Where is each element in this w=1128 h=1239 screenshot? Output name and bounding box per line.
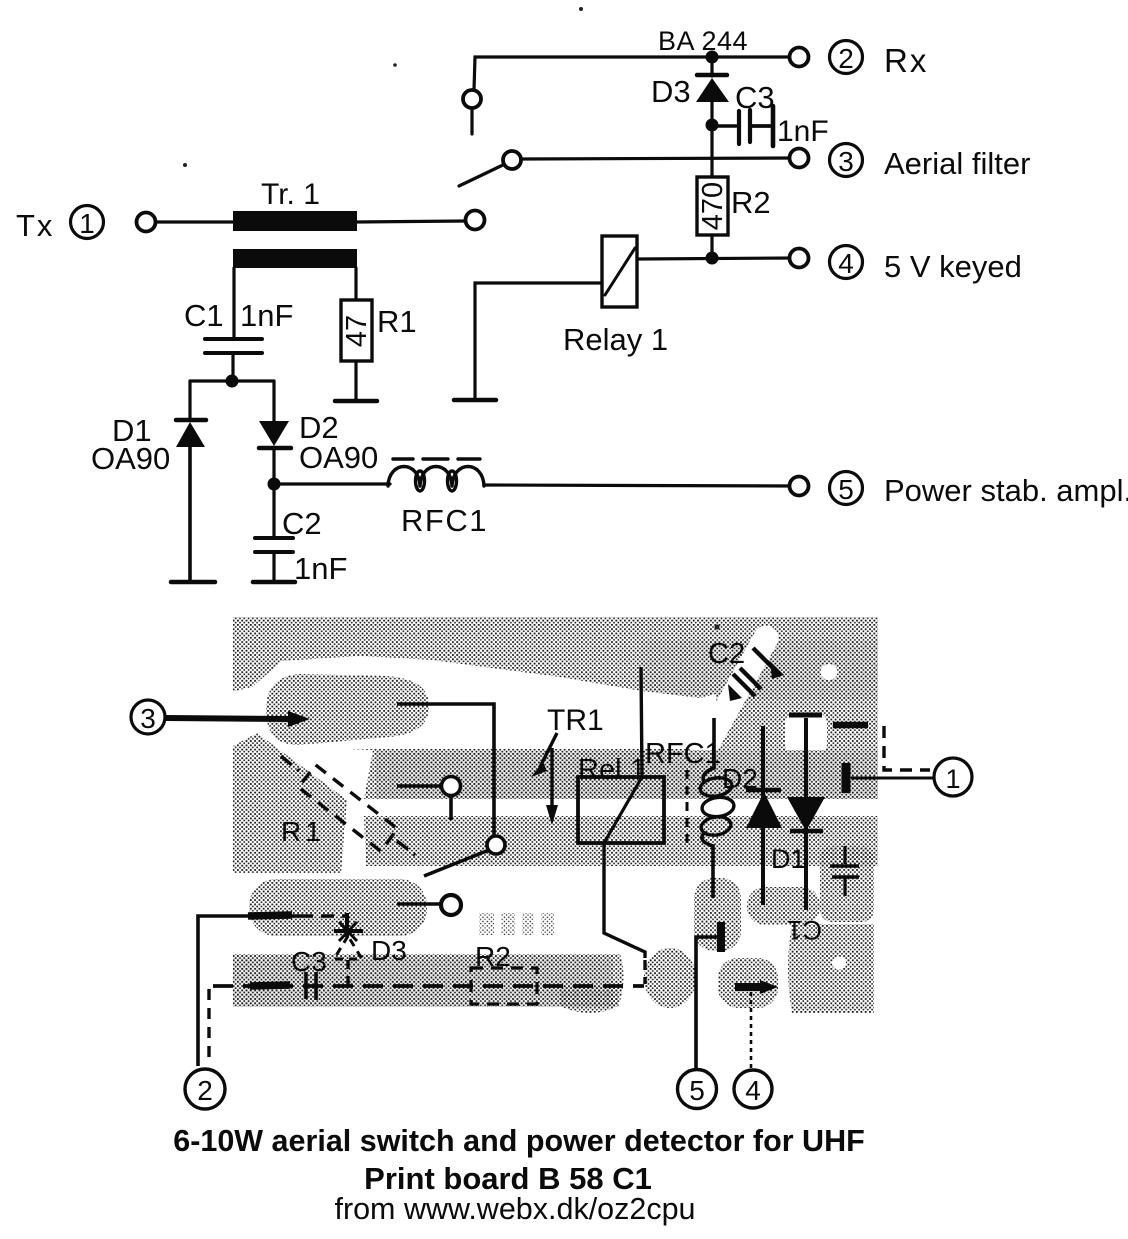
- scan speck top: [579, 7, 583, 11]
- diode D3 dashed triangle pcb: [334, 936, 362, 959]
- terminal 4 pad: [790, 249, 809, 268]
- pcb etched white hole bottom right: [832, 957, 846, 970]
- terminal 4 circle pcb: [734, 1070, 772, 1108]
- pcb etched white pocket at D1 pad: [785, 713, 827, 754]
- svg-text:C1: C1: [184, 298, 224, 333]
- svg-text:Rel.1: Rel.1: [578, 754, 646, 786]
- pcb etched white hole top right: [821, 664, 838, 680]
- switch aerial throw contact: [503, 151, 521, 169]
- capacitor C1 pcb: [830, 846, 859, 896]
- svg-text:Tr. 1: Tr. 1: [261, 178, 320, 211]
- switch upper throw contact: [463, 90, 481, 108]
- svg-text:47: 47: [341, 315, 373, 347]
- wire Tr.1 to switch pole: [357, 221, 466, 222]
- pcb copper middle band: [364, 750, 878, 799]
- fat lead upper pcb: [248, 915, 292, 916]
- relay Rel.1 body pcb: [578, 777, 664, 843]
- svg-text:470: 470: [697, 182, 729, 230]
- pad 1 bar pcb: [842, 763, 851, 793]
- pcb copper C1 area: [820, 846, 874, 922]
- wire dashed to terminal 2 pcb: [207, 989, 210, 1063]
- wire junction to D1 and D2: [190, 379, 274, 382]
- wire down to D2: [272, 381, 275, 421]
- relay Relay1 body: [602, 236, 637, 307]
- terminal 4 circle: [830, 246, 863, 280]
- svg-text:1: 1: [945, 764, 960, 794]
- wire pad1 to terminal 1: [851, 777, 934, 780]
- terminal 5 circle pcb: [678, 1070, 717, 1109]
- capacitor C1: [205, 339, 262, 353]
- ground D1: [171, 580, 215, 585]
- pcb copper middle band darker stripe: [376, 751, 878, 799]
- inductor RFC1 core dashed pcb: [686, 770, 689, 845]
- diode D1 pcb: [787, 715, 825, 910]
- resistor R2 vertical wire: [710, 125, 713, 177]
- wire solid to terminal 2 pcb: [198, 916, 300, 1066]
- diode D3: [696, 57, 729, 125]
- terminal 2 circle: [830, 41, 863, 75]
- svg-text:2: 2: [197, 1075, 213, 1106]
- capacitor C2 symbol pcb: [728, 648, 784, 701]
- wire arrow from 3 to board: [166, 711, 310, 727]
- svg-text:RFC1: RFC1: [401, 503, 488, 538]
- wire power line to RFC1: [274, 482, 390, 485]
- svg-text:D2: D2: [722, 763, 758, 794]
- svg-text:1nF: 1nF: [777, 115, 829, 148]
- terminal 1 circle: [71, 206, 104, 240]
- svg-text:D3: D3: [371, 935, 407, 966]
- switch pole contact: [466, 211, 485, 230]
- terminal 3 circle pcb: [131, 700, 165, 734]
- pcb copper island trace: [266, 674, 429, 745]
- terminal 5 circle: [830, 472, 863, 506]
- svg-text:1: 1: [79, 208, 95, 239]
- pcb copper bottom right block: [788, 924, 874, 1013]
- svg-text:6-10W aerial switch and power: 6-10W aerial switch and power detector f…: [173, 1124, 864, 1158]
- wire L to switch pole pcb: [397, 704, 494, 837]
- scan speck mid: [393, 63, 397, 67]
- wire R1 to ground: [354, 361, 357, 399]
- pcb copper blob at pad 4: [718, 958, 778, 1008]
- svg-text:R2: R2: [731, 185, 771, 220]
- svg-text:5 V keyed: 5 V keyed: [884, 249, 1022, 284]
- svg-text:R2: R2: [475, 941, 511, 972]
- svg-text:RFC1: RFC1: [645, 738, 721, 770]
- wire C1 to junction: [231, 353, 234, 381]
- capacitor C2: [255, 538, 293, 580]
- svg-text:R1: R1: [281, 816, 325, 847]
- switch upper contact pcb: [397, 777, 461, 821]
- svg-text:5: 5: [689, 1075, 705, 1106]
- terminal 1 pad: [137, 213, 156, 232]
- svg-text:BA 244: BA 244: [658, 26, 748, 56]
- svg-text:1nF: 1nF: [240, 298, 293, 333]
- wire aerial filter line: [522, 158, 795, 159]
- pad 4 bar pcb: [735, 980, 778, 994]
- terminal 1 circle pcb: [934, 758, 972, 796]
- arrow TR1 to board diagonal: [531, 733, 557, 777]
- scan speck left: [183, 163, 187, 167]
- terminal 2 circle pcb: [185, 1069, 225, 1109]
- dashed wire to D3 pcb: [300, 914, 346, 917]
- diode D2 pcb: [746, 726, 782, 905]
- svg-text:C3: C3: [291, 946, 327, 977]
- pcb copper top band darker right: [640, 640, 878, 700]
- svg-text:OA90: OA90: [91, 441, 170, 476]
- wire relay coil to ground: [475, 283, 602, 398]
- resistor R1 dashed outline pcb: [298, 765, 397, 851]
- svg-text:D3: D3: [651, 74, 691, 109]
- svg-text:C2: C2: [282, 506, 322, 541]
- svg-text:C1: C1: [787, 915, 822, 945]
- ground relay: [454, 398, 496, 403]
- node junction dot under C1: [226, 375, 239, 388]
- capacitor C3: [712, 106, 773, 146]
- wire relay lead down pcb: [604, 843, 645, 958]
- resistor R1 wire from Tr.1 secondary: [354, 268, 357, 300]
- transformer Tr.1 primary winding: [233, 211, 357, 231]
- resistor R2 body: [697, 177, 728, 235]
- switch lever: [459, 164, 505, 186]
- fat lead lower pcb: [250, 985, 290, 986]
- svg-text:3: 3: [838, 146, 854, 177]
- inductor RFC1 winding pcb: [699, 718, 735, 898]
- wire vertical into relay pcb: [641, 667, 642, 777]
- terminal 2 pad: [790, 48, 809, 67]
- scan speck pcb top: [715, 625, 720, 630]
- inductor RFC1 core dashes: [393, 457, 480, 460]
- terminal 3 circle: [830, 144, 863, 178]
- svg-text:Rx: Rx: [884, 42, 928, 79]
- node junction dot BA244: [706, 51, 719, 64]
- arrow TR1 to board vertical: [546, 748, 558, 825]
- ground R1: [335, 399, 377, 404]
- pcb copper blob below relay lead: [560, 986, 618, 1013]
- wire Tx to Tr.1: [156, 220, 234, 223]
- resistor R2 dashed outline pcb: [471, 968, 537, 1004]
- diode D3 pcb cathode bar with cross: [334, 922, 363, 941]
- pad 5 bar pcb: [717, 922, 725, 952]
- wire pad4 to terminal 4 dotted: [750, 992, 753, 1069]
- switch pole contact pcb: [487, 836, 505, 854]
- svg-text:3: 3: [140, 703, 156, 734]
- node junction dot 5V keyed: [706, 252, 719, 265]
- dashed lead to terminal 1: [833, 725, 930, 770]
- svg-text:C2: C2: [708, 638, 745, 670]
- pcb etched white channel snake: [231, 656, 716, 755]
- svg-text:Print board B 58 C1: Print board B 58 C1: [364, 1161, 652, 1196]
- resistor R1 lead dashes pcb: [281, 756, 299, 771]
- dashed wire D3 down pcb: [346, 960, 349, 985]
- svg-text:Power stab. ampl.: Power stab. ampl.: [884, 473, 1128, 508]
- wire down to D1: [188, 381, 191, 419]
- svg-text:Relay 1: Relay 1: [563, 322, 668, 357]
- pcb faint solder marks: [479, 913, 554, 935]
- terminal 5 pad: [790, 477, 809, 496]
- dashed bus wire pcb: [213, 984, 644, 988]
- pcb copper lower left block: [233, 733, 347, 873]
- pcb copper top band: [233, 617, 878, 750]
- wire relay to terminal 4: [638, 258, 795, 259]
- relay Relay1 diagonal: [605, 248, 635, 295]
- pcb copper blob at pad 5: [694, 878, 741, 951]
- transformer Tr.1 secondary winding: [233, 249, 357, 268]
- terminal 3 pad: [790, 149, 809, 168]
- pcb copper blob diagonal at relay lead: [644, 948, 696, 1008]
- capacitor C3 pcb: [306, 972, 316, 1000]
- resistor R1 body: [341, 300, 372, 361]
- wire stub below upper contact: [470, 110, 473, 134]
- pcb copper bottom band: [233, 954, 624, 1007]
- inductor RFC1 winding: [388, 467, 484, 492]
- pcb etched white channel at C2: [697, 638, 766, 762]
- switch lever pcb: [424, 850, 489, 876]
- svg-text:C3: C3: [735, 80, 775, 115]
- svg-text:from www.webx.dk/oz2cpu: from www.webx.dk/oz2cpu: [334, 1192, 695, 1226]
- relay Rel.1 diagonal pcb: [604, 777, 642, 843]
- wire junction to C2: [272, 484, 275, 538]
- wire relay lead dashed pcb: [643, 960, 646, 984]
- node junction dot D3/C3: [706, 119, 719, 132]
- wire Tr.1 secondary to C1: [232, 268, 235, 338]
- wire RFC1 to terminal 5: [484, 485, 795, 486]
- svg-text:5: 5: [838, 474, 854, 505]
- svg-text:Aerial filter: Aerial filter: [884, 146, 1030, 181]
- diode D2: [259, 421, 291, 484]
- wire R2 to 5V keyed node: [710, 235, 713, 258]
- pcb copper blob diode pads: [747, 887, 820, 925]
- svg-text:Tx: Tx: [16, 208, 54, 243]
- wire pad5 to terminal 5: [696, 937, 717, 1069]
- svg-text:4: 4: [838, 248, 854, 279]
- svg-text:1nF: 1nF: [294, 551, 347, 586]
- svg-text:D1: D1: [771, 844, 806, 874]
- svg-text:2: 2: [838, 43, 854, 74]
- svg-text:R1: R1: [377, 304, 417, 339]
- svg-text:TR1: TR1: [547, 704, 604, 737]
- switch lower contact pcb: [397, 895, 461, 915]
- pcb copper blob row left: [249, 879, 427, 936]
- svg-text:4: 4: [745, 1075, 761, 1106]
- diode D1: [176, 420, 206, 580]
- svg-text:OA90: OA90: [299, 440, 378, 475]
- wire upper contact to Rx line: [474, 57, 795, 90]
- ground C2: [253, 580, 295, 585]
- node junction dot power line: [268, 478, 281, 491]
